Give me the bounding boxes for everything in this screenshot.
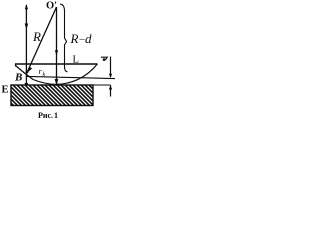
lens top flat surface [15, 63, 98, 65]
d dimension down arrowhead [109, 74, 112, 78]
radius R arrowhead at B [27, 67, 33, 73]
d dimension up arrowhead [109, 85, 112, 89]
svg-text:k: k [43, 72, 46, 78]
central axis ray from O' [56, 7, 58, 85]
d dimension lower line [110, 85, 112, 97]
axis mid down arrowhead [55, 50, 58, 56]
glass plate E hatched block [11, 85, 93, 106]
ray 1 mid down arrowhead [25, 24, 29, 30]
axis bottom down arrowhead at plate [55, 79, 59, 86]
radius line R from O' to B [28, 7, 57, 72]
plate top line extension to right [93, 84, 111, 86]
ring chord level line through B [27, 76, 115, 78]
d dimension line at right [110, 57, 112, 78]
svg-text:R: R [32, 29, 41, 44]
curly brace for R-d [60, 4, 68, 72]
point B dot [26, 71, 29, 74]
lens convex bottom left part through B down to contact point [16, 66, 57, 85]
ray 1 bottom down arrowhead at plate [25, 83, 29, 90]
svg-text:B: B [14, 72, 22, 84]
svg-text:d: d [85, 31, 92, 46]
svg-text:R: R [70, 31, 79, 46]
svg-text:O′: O′ [46, 1, 57, 12]
small d label glyph top right [101, 57, 107, 60]
svg-text:Рис.1: Рис.1 [38, 111, 58, 120]
svg-text:L: L [73, 55, 79, 66]
ray 1 vertical line at left [25, 5, 27, 86]
lens convex bottom right part rising to edge [56, 64, 98, 85]
lens left edge tick [15, 64, 17, 67]
ray 1 up arrowhead top [25, 4, 28, 9]
svg-text:E: E [2, 85, 9, 96]
